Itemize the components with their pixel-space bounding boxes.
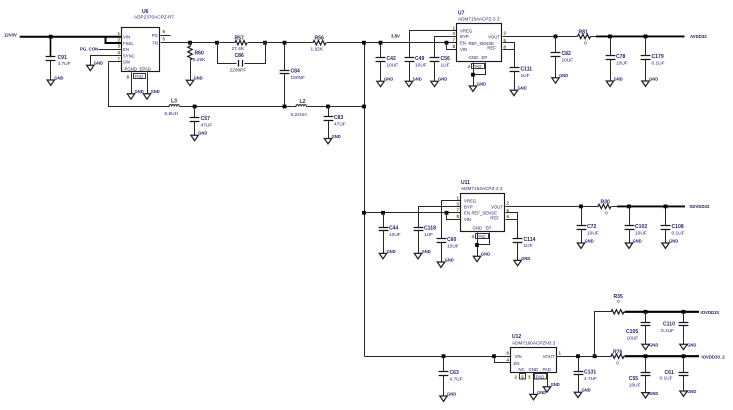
svg-text:4.7UF: 4.7UF [584,376,597,382]
svg-text:R76: R76 [613,349,623,355]
svg-text:GND: GND [649,343,658,348]
svg-text:EN: EN [460,40,466,45]
svg-text:10UF: 10UF [635,231,647,237]
wire [131,73,133,94]
svg-text:C114: C114 [524,237,536,243]
wire [161,35,171,37]
svg-text:4: 4 [468,64,471,69]
svg-text:REF: REF [490,215,499,220]
capacitor C118 [414,227,424,229]
svg-text:C110: C110 [663,321,675,327]
svg-text:C61: C61 [665,370,675,376]
wire [327,42,365,44]
svg-text:GND: GND [559,73,568,78]
svg-text:VIN: VIN [515,354,522,359]
svg-text:47UF: 47UF [334,122,346,128]
capacitor C105 [644,310,648,314]
wire [445,211,449,215]
svg-text:GND: GND [649,391,658,396]
svg-text:0: 0 [584,40,587,46]
capacitor C60 [437,238,447,240]
svg-text:C108: C108 [672,224,684,230]
wire [612,206,618,208]
pad PAD [535,374,547,380]
ground [680,391,687,396]
svg-text:C78: C78 [616,54,626,60]
svg-text:GND: GND [445,257,454,262]
ground [577,243,584,248]
svg-text:6.8UH: 6.8UH [165,111,179,117]
svg-text:C82: C82 [562,51,572,57]
svg-text:PAD: PAD [543,367,552,372]
svg-text:C56: C56 [441,56,451,62]
svg-text:GND: GND [387,249,396,254]
wire [109,62,170,107]
wire [625,356,626,358]
wire [364,43,366,357]
IC U7 [453,11,507,62]
wire [547,373,549,387]
resistor R56 [313,41,326,45]
svg-text:4.7UF: 4.7UF [58,61,71,67]
svg-text:C44: C44 [389,226,399,232]
ground [574,392,581,397]
capacitor C91 [49,35,53,39]
resistor R60 [188,41,192,45]
svg-text:C49: C49 [415,56,425,62]
capacitor C63 [442,354,446,358]
svg-text:GND: GND [54,75,63,80]
wire [625,311,626,313]
svg-text:R57: R57 [235,36,245,42]
IC U12 [507,334,562,372]
svg-text:GND: GND [529,367,539,372]
svg-text:VIN: VIN [123,35,130,40]
svg-text:GND: GND [447,391,456,396]
svg-text:R56: R56 [315,36,325,42]
capacitor C56 [430,57,440,59]
capacitor C83 [326,105,330,109]
svg-text:GND: GND [94,61,103,66]
svg-text:10UF: 10UF [629,382,641,388]
svg-text:PGND: PGND [125,67,137,72]
svg-text:C55: C55 [629,376,639,382]
capacitor C82 [554,35,558,39]
svg-text:6: 6 [163,29,166,34]
wire [109,61,122,63]
svg-text:47UF: 47UF [201,123,213,129]
wire [625,311,700,313]
svg-text:GND: GND [614,76,623,81]
svg-text:C179: C179 [652,54,664,60]
svg-text:R60: R60 [195,50,205,56]
capacitor C49 [405,57,415,59]
svg-text:0.22UH: 0.22UH [291,112,308,118]
svg-text:SDVDD33: SDVDD33 [690,204,710,209]
svg-text:GND: GND [649,76,658,81]
svg-text:0.1UF: 0.1UF [652,60,665,66]
svg-text:C131: C131 [584,370,596,376]
svg-text:C86: C86 [235,53,245,59]
svg-text:GND: GND [687,389,696,394]
svg-text:GND: GND [687,343,696,348]
wire [492,354,496,358]
wire [625,355,700,357]
svg-text:2: 2 [515,374,518,379]
svg-text:1UF: 1UF [521,73,530,79]
svg-text:PAD: PAD [135,74,144,79]
wire [307,106,365,108]
inductor L2 [296,105,306,107]
wire [506,206,599,208]
svg-text:PAD: PAD [473,64,482,69]
svg-text:GND: GND [422,249,431,254]
svg-text:R30: R30 [601,200,611,206]
svg-text:1UF: 1UF [441,62,450,68]
svg-text:1: 1 [559,350,562,355]
svg-text:3: 3 [118,44,121,49]
svg-text:GND: GND [477,81,486,86]
svg-text:10UF: 10UF [562,57,574,63]
svg-text:10UF: 10UF [616,60,628,66]
svg-text:1: 1 [457,196,460,201]
svg-text:1: 1 [453,25,456,30]
wire [91,56,122,66]
wire [593,354,597,358]
wire [99,49,122,51]
svg-text:8.25K: 8.25K [193,57,206,63]
svg-text:6: 6 [507,351,510,356]
svg-text:C118: C118 [424,226,436,232]
svg-text:100NF: 100NF [291,75,305,81]
capacitor C86 [215,41,219,45]
svg-text:GND: GND [151,89,160,94]
svg-text:2: 2 [504,31,507,36]
ground [473,256,480,261]
svg-text:8: 8 [453,44,456,49]
svg-text:FB: FB [153,40,159,45]
wire [533,373,535,395]
svg-text:0: 0 [605,210,608,216]
ground [625,243,632,248]
ground [143,94,150,99]
svg-text:GND: GND [384,77,393,82]
ground [469,86,476,91]
ground [530,394,537,399]
capacitor C72 [579,205,583,209]
svg-text:C42: C42 [387,56,397,62]
svg-text:GND: GND [518,86,527,91]
svg-text:10UF: 10UF [415,62,427,68]
svg-text:GND: GND [413,77,422,82]
capacitor C102 [627,205,631,209]
svg-text:8: 8 [457,214,460,219]
resistor R81 [578,34,591,38]
svg-text:0: 0 [616,360,619,366]
wire [445,41,449,45]
svg-text:C111: C111 [521,66,533,72]
svg-text:10UF: 10UF [587,231,599,237]
svg-text:GND: GND [521,256,530,261]
svg-text:IOVDD33: IOVDD33 [701,310,720,315]
wire [442,201,461,239]
svg-text:12V0V: 12V0V [4,32,17,37]
capacitor C44 [381,211,385,215]
svg-text:REF: REF [487,45,496,50]
svg-text:C60: C60 [447,237,457,243]
svg-text:IOVDD33_2: IOVDD33_2 [702,355,726,360]
inductor L3 [169,105,179,107]
ground [543,387,550,392]
svg-text:BYP: BYP [464,204,473,209]
svg-text:GND: GND [438,77,447,82]
svg-text:0.1UF: 0.1UF [672,231,685,237]
svg-text:1.92K: 1.92K [311,46,324,52]
svg-text:GND: GND [537,390,546,395]
svg-text:4: 4 [507,357,510,362]
ground [405,81,412,86]
wire [503,43,515,50]
svg-text:BYP: BYP [460,34,469,39]
svg-text:EN: EN [514,361,520,366]
ground [662,243,669,248]
svg-text:3.8V: 3.8V [391,34,400,39]
capacitor C131 [576,354,580,358]
wire [506,219,518,221]
ground [414,253,421,258]
wire [503,49,515,51]
svg-text:1UF: 1UF [424,232,433,238]
wire [591,36,597,38]
capacitor C61 [682,354,686,358]
capacitor C111 [514,50,516,68]
svg-text:C91: C91 [58,55,68,61]
svg-text:3: 3 [457,201,460,206]
resistor R30 [598,204,611,208]
ground [191,135,198,140]
resistor R35 [611,310,624,314]
ground [186,80,193,85]
svg-text:GND: GND [473,225,483,230]
capacitor C108 [664,205,668,209]
svg-text:AVDD33: AVDD33 [690,34,707,39]
wire [161,42,236,44]
svg-text:VIN: VIN [464,217,471,222]
svg-text:EN: EN [464,211,470,216]
svg-text:10UF: 10UF [387,62,399,68]
svg-text:GND: GND [481,252,490,257]
svg-text:4.7UF: 4.7UF [450,377,463,383]
svg-text:EP: EP [482,55,488,60]
IC U11 [457,180,510,231]
svg-text:VREG: VREG [464,199,477,204]
pad PAD [134,74,146,79]
svg-text:2: 2 [118,38,121,43]
svg-text:10UF: 10UF [389,232,401,238]
svg-text:C83: C83 [334,115,344,121]
svg-text:PAD: PAD [536,374,545,379]
svg-text:GND: GND [198,131,207,136]
svg-text:5: 5 [163,36,166,41]
svg-text:2: 2 [507,201,510,206]
ground [606,81,613,86]
ground [47,80,54,85]
ground [642,393,649,398]
capacitor C110 [682,310,686,314]
svg-text:7: 7 [118,56,121,61]
wire [617,205,685,207]
svg-text:C57: C57 [201,116,211,122]
svg-text:C102: C102 [635,224,647,230]
wire [365,212,461,214]
svg-text:VIN: VIN [460,47,467,52]
resistor R57 [235,41,247,45]
svg-text:0.1UF: 0.1UF [660,376,673,382]
svg-text:GND: GND [633,238,642,243]
svg-text:ADM7154ACPZ-3.3: ADM7154ACPZ-3.3 [461,186,503,191]
capacitor C179 [644,35,648,39]
wire [106,37,122,43]
capacitor C78 [608,35,612,39]
svg-text:C72: C72 [587,224,597,230]
svg-text:VOUT: VOUT [488,35,500,40]
svg-text:EN: EN [123,47,129,52]
capacitor C114 [517,220,519,239]
wire [180,106,297,108]
svg-text:VOUT: VOUT [491,205,503,210]
svg-text:10UF: 10UF [447,243,459,249]
wire [596,35,685,37]
svg-text:6: 6 [504,44,507,49]
wire [435,37,457,58]
svg-text:FSEL: FSEL [123,41,134,46]
svg-text:10UF: 10UF [627,335,639,341]
svg-text:NC: NC [519,367,525,372]
svg-text:1: 1 [118,31,121,36]
svg-text:C84: C84 [291,69,301,75]
wire [506,213,518,220]
ground [552,78,559,83]
ground [87,65,94,70]
wire [477,233,479,257]
svg-text:C63: C63 [450,370,460,376]
svg-text:3: 3 [453,31,456,36]
resistor R76 [611,354,624,358]
svg-text:2200PF: 2200PF [230,68,247,74]
svg-text:0: 0 [617,299,620,305]
svg-text:GND: GND [585,238,594,243]
svg-text:PG: PG [152,33,159,38]
wire [419,207,461,228]
svg-text:SW: SW [123,60,131,65]
svg-text:1UF: 1UF [524,243,533,249]
svg-text:0.1UF: 0.1UF [661,328,674,334]
svg-text:GND: GND [551,382,560,387]
svg-text:EPAD: EPAD [140,67,151,72]
ground [642,344,649,349]
svg-text:4: 4 [118,50,121,55]
ground [514,260,521,265]
svg-text:GND: GND [332,134,341,139]
svg-text:PG_CON: PG_CON [80,47,98,52]
ground [431,81,438,86]
svg-text:3: 3 [528,374,531,379]
svg-text:VREG: VREG [460,28,473,33]
svg-text:L3: L3 [171,98,177,104]
ground [680,344,687,349]
wire [365,42,457,44]
capacitor C42 [379,41,383,45]
wire [478,233,490,245]
wire [248,42,314,44]
svg-text:7: 7 [457,208,460,213]
capacitor C57 [193,105,197,109]
ground [642,81,649,86]
svg-text:C105: C105 [626,329,638,335]
svg-text:L2: L2 [300,99,306,105]
svg-text:R81: R81 [579,30,589,36]
wire [503,36,578,38]
svg-text:GND: GND [194,76,203,81]
ground [510,90,517,95]
wire [20,36,121,38]
svg-text:GND: GND [582,388,591,393]
svg-text:6: 6 [507,214,510,219]
wire [147,73,149,94]
svg-text:ADM7154ACPZ-3.3: ADM7154ACPZ-3.3 [458,17,500,22]
capacitor C84 [283,41,287,45]
svg-text:7: 7 [453,37,456,42]
svg-text:U12: U12 [512,334,521,340]
svg-text:4: 4 [472,234,475,239]
wire [557,356,612,358]
ground [379,253,386,258]
svg-text:GND: GND [469,55,479,60]
IC U6 [118,9,175,72]
svg-text:EP: EP [486,225,492,230]
ground [440,396,447,401]
wire [410,31,457,58]
wire [473,63,475,87]
svg-text:27.4K: 27.4K [232,46,245,52]
svg-text:ADP2370ACPZ-R7: ADP2370ACPZ-R7 [134,15,175,20]
wire [365,356,511,358]
ground [324,139,331,144]
svg-text:PAD: PAD [477,234,486,239]
svg-text:GND: GND [669,238,678,243]
ground [377,81,384,86]
svg-text:8: 8 [127,74,130,79]
ground [127,94,134,99]
ground [437,262,444,267]
wire [474,63,486,75]
svg-text:SYNC: SYNC [123,53,135,58]
capacitor C55 [644,354,648,358]
svg-text:VOUT: VOUT [543,354,555,359]
svg-text:ADM7160ACPZN3.3: ADM7160ACPZN3.3 [512,341,556,346]
